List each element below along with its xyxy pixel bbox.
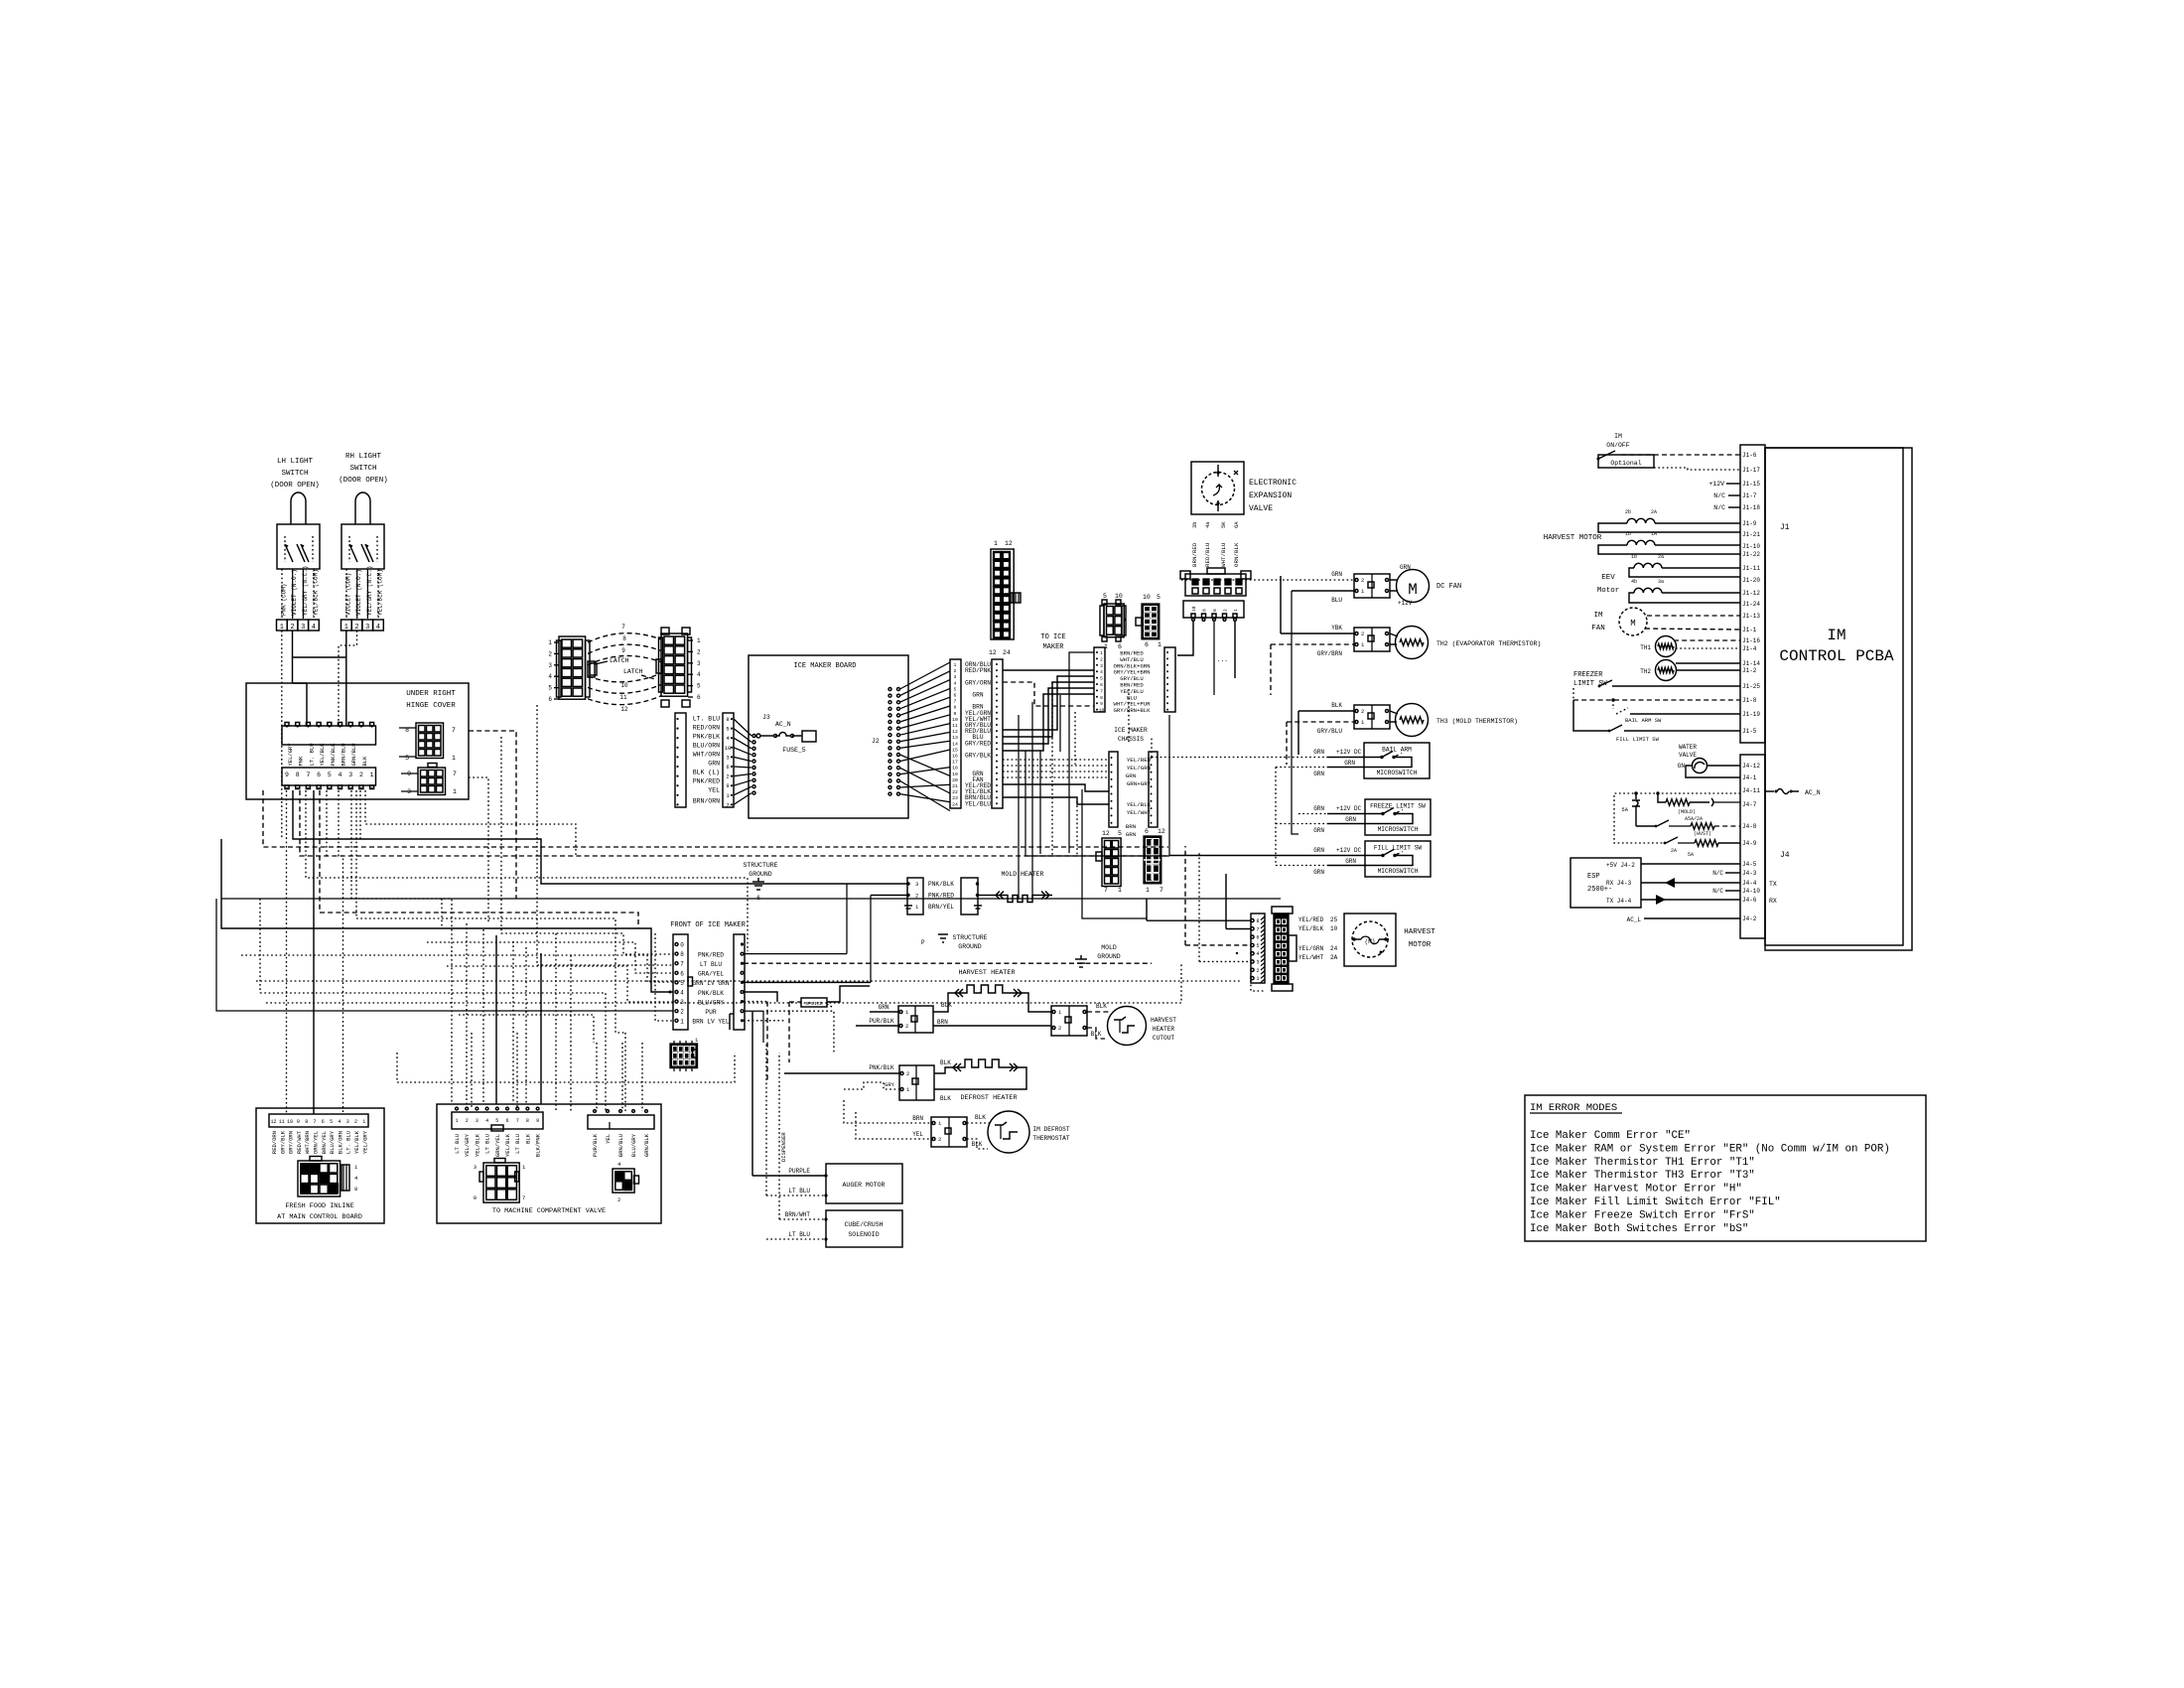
freezer limit switch symbol	[1599, 680, 1612, 686]
wire GRN into CN-HH1	[870, 1011, 898, 1013]
svg-text:2: 2	[1256, 968, 1259, 974]
svg-text:PNK (COM): PNK (COM)	[281, 584, 288, 616]
svg-text:J1-1: J1-1	[1742, 627, 1757, 633]
svg-text:VIOLET (COM): VIOLET (COM)	[345, 573, 352, 616]
svg-text:7: 7	[1160, 887, 1163, 894]
svg-text:BLU/GRY: BLU/GRY	[698, 999, 724, 1006]
splice label box	[801, 998, 827, 1007]
svg-text:GRN: GRN	[1400, 564, 1411, 571]
svg-text:GRN: GRN	[1313, 749, 1324, 756]
svg-text:J2: J2	[872, 738, 880, 745]
svg-text:7: 7	[1256, 926, 1259, 932]
microswitch box FILL LIMIT SW	[1365, 841, 1431, 877]
connector strip CN-A (hinge cover upper)	[282, 726, 376, 745]
svg-text:SPLICE: SPLICE	[805, 1001, 822, 1007]
svg-text:YEL: YEL	[912, 1131, 923, 1138]
svg-text:7: 7	[522, 1195, 525, 1201]
IM defrost thermostat circle	[988, 1111, 1029, 1153]
svg-text:9: 9	[954, 711, 957, 717]
svg-text:PNK/RED: PNK/RED	[698, 951, 724, 958]
svg-text:BRN/RED: BRN/RED	[1191, 542, 1198, 567]
svg-text:BLK: BLK	[1096, 1003, 1107, 1010]
svg-text:J4-4: J4-4	[1742, 880, 1757, 887]
svg-text:GRN: GRN	[972, 692, 983, 699]
svg-text:2: 2	[354, 1119, 357, 1125]
svg-text:FILL LIMIT SW: FILL LIMIT SW	[1374, 845, 1423, 852]
svg-text:M: M	[1408, 581, 1418, 599]
svg-text:Motor: Motor	[1597, 587, 1620, 595]
box: harvest motor	[1344, 914, 1396, 966]
svg-text:FREEZER: FREEZER	[1573, 671, 1603, 679]
board left pin circles	[752, 735, 755, 738]
svg-text:9: 9	[621, 647, 625, 654]
svg-text:2: 2	[290, 624, 294, 632]
svg-text:J1-24: J1-24	[1742, 601, 1760, 608]
svg-text:BLK: BLK	[940, 1095, 951, 1102]
svg-text:7: 7	[621, 624, 625, 631]
svg-text:ELECTRONIC: ELECTRONIC	[1249, 479, 1297, 488]
svg-text:IM ERROR MODES: IM ERROR MODES	[1530, 1102, 1617, 1114]
machine compartment connector strip 2	[588, 1115, 654, 1129]
svg-text:17: 17	[952, 760, 958, 766]
svg-text:11: 11	[619, 694, 627, 701]
connector strip CN-HM1	[1251, 914, 1265, 983]
wire bundle from hinge cover down to fresh food board	[286, 790, 288, 1114]
svg-text:1: 1	[362, 1119, 365, 1125]
svg-text:YEL/GRY (N.C.): YEL/GRY (N.C.)	[302, 566, 309, 616]
svg-text:ICE MAKER BOARD: ICE MAKER BOARD	[793, 662, 856, 670]
svg-text:GRY/ORN: GRY/ORN	[965, 679, 991, 686]
svg-text:YEL/BLK: YEL/BLK	[1298, 925, 1324, 932]
svg-text:19: 19	[952, 772, 958, 777]
wire splice connections	[789, 1001, 801, 1003]
svg-text:BRN/BLU: BRN/BLU	[341, 743, 347, 766]
svg-text:8: 8	[1256, 918, 1259, 924]
svg-text:FRONT OF ICE MAKER: FRONT OF ICE MAKER	[670, 921, 746, 929]
svg-text:8: 8	[622, 635, 626, 642]
svg-text:10: 10	[287, 1119, 293, 1125]
svg-text:GRN: GRN	[1313, 827, 1324, 834]
svg-text:7: 7	[1100, 688, 1103, 694]
connector J-FIM (black 4x3 grid)	[670, 1044, 698, 1068]
svg-text:PNK: PNK	[298, 756, 305, 767]
svg-text:5: 5	[697, 683, 701, 690]
switch S1 (LH light switch)	[291, 492, 306, 524]
svg-text:11: 11	[952, 723, 958, 729]
svg-text:2: 2	[1361, 708, 1364, 715]
svg-text:6: 6	[1100, 682, 1103, 688]
IM fan motor symbol	[1619, 608, 1647, 635]
svg-text:BRN: BRN	[1126, 823, 1137, 830]
svg-text:5: 5	[680, 980, 684, 987]
svg-text:3: 3	[365, 624, 369, 632]
wire GRN dotted to CN-FAN	[1283, 579, 1354, 581]
svg-text:YEL/GRY: YEL/GRY	[361, 1130, 368, 1154]
svg-text:BRN/WHT: BRN/WHT	[785, 1211, 811, 1218]
defrost heater element	[934, 1067, 950, 1073]
svg-text:IM: IM	[1827, 627, 1845, 644]
svg-text:4a: 4a	[1204, 521, 1211, 528]
svg-text:1: 1	[453, 788, 457, 795]
svg-text:9: 9	[726, 782, 729, 789]
svg-text:+12V DC: +12V DC	[1336, 805, 1362, 812]
svg-text:3: 3	[697, 660, 701, 667]
wire PUR/BLK into CN-HH1	[856, 1025, 898, 1027]
connector strip CN-I	[1094, 647, 1105, 712]
svg-text:YEL/BLK: YEL/BLK	[353, 1130, 360, 1154]
DC fan motor	[1397, 570, 1430, 603]
svg-text:YEL/GRN: YEL/GRN	[1127, 765, 1152, 772]
wire BRN/WHT to solenoid	[779, 1218, 826, 1220]
svg-text:J1-14: J1-14	[1742, 660, 1760, 667]
svg-text:Ice Maker RAM or System Error: Ice Maker RAM or System Error "ER" (No C…	[1530, 1143, 1890, 1155]
svg-text:J1-11: J1-11	[1742, 565, 1760, 572]
svg-text:YEL/BLK (COM): YEL/BLK (COM)	[377, 569, 384, 616]
svg-text:SWITCH: SWITCH	[281, 470, 308, 478]
svg-text:0: 0	[680, 942, 684, 949]
svg-text:N/C: N/C	[1712, 870, 1723, 877]
svg-text:GRY: GRY	[885, 1081, 895, 1088]
svg-text:12: 12	[989, 649, 997, 656]
svg-text:FREEZE LIMIT SW: FREEZE LIMIT SW	[1370, 803, 1426, 810]
connector strip CN-H (front of ice maker right)	[734, 934, 745, 1030]
svg-text:GRN: GRN	[1126, 831, 1137, 838]
fuse network dashed frame	[1614, 793, 1740, 843]
svg-text:5K: 5K	[1220, 521, 1227, 528]
svg-text:6: 6	[505, 1118, 508, 1124]
svg-text:LT BLU: LT BLU	[484, 1134, 491, 1154]
connector strip CN-E (24-pin)	[950, 659, 961, 808]
connector CN-MH (mold heater feed)	[907, 878, 923, 914]
svg-text:2: 2	[1361, 631, 1364, 637]
svg-text:TX J4-4: TX J4-4	[1606, 898, 1632, 905]
wire BLK to CN-TH3	[1298, 710, 1354, 712]
svg-text:J4-9: J4-9	[1742, 840, 1757, 847]
svg-text:7: 7	[954, 699, 957, 705]
svg-text:2: 2	[680, 1009, 684, 1016]
svg-text:BLU: BLU	[1331, 597, 1342, 604]
svg-text:6: 6	[548, 696, 552, 703]
svg-text:J4-8: J4-8	[1742, 823, 1757, 830]
wire bundle verticals to machine compartment box	[466, 923, 468, 1104]
svg-text:BRN/YEL: BRN/YEL	[928, 904, 954, 911]
svg-text:2: 2	[548, 650, 552, 657]
svg-text:12: 12	[1005, 540, 1013, 547]
wire bundle verticals x1060-1095 upper	[1076, 801, 1078, 856]
svg-text:3: 3	[474, 1164, 477, 1171]
wire GRY/BRN dashed to CN-TH2	[1271, 643, 1354, 645]
svg-text:GRY/ORN: GRY/ORN	[288, 1131, 295, 1154]
svg-text:Ice Maker Comm Error "CE": Ice Maker Comm Error "CE"	[1530, 1130, 1691, 1142]
svg-text:12: 12	[1158, 828, 1165, 835]
svg-text:J1-20: J1-20	[1742, 577, 1760, 584]
svg-text:1: 1	[1100, 650, 1103, 656]
svg-text:8: 8	[1202, 609, 1208, 612]
svg-text:FRESH FOOD INLINE: FRESH FOOD INLINE	[285, 1202, 353, 1210]
svg-text:+12V: +12V	[1708, 481, 1724, 488]
connector J-C (2x5 white)	[1102, 838, 1121, 887]
svg-text:6: 6	[322, 1119, 325, 1125]
svg-text:BRN/BLU: BRN/BLU	[617, 1134, 624, 1157]
svg-text:5: 5	[954, 686, 957, 692]
svg-text:BLK/ORN: BLK/ORN	[337, 1131, 343, 1154]
svg-text:J1-18: J1-18	[1742, 504, 1760, 511]
svg-text:(DOOR OPEN): (DOOR OPEN)	[270, 482, 320, 490]
svg-text:12: 12	[952, 729, 958, 735]
connector CN-HM2 (harvest motor plug)	[1272, 907, 1293, 914]
wires to fill limit switch	[1169, 855, 1365, 857]
svg-text:4: 4	[680, 990, 684, 997]
wire stubs below hinge cover	[320, 790, 638, 928]
svg-text:YEL/BLK: YEL/BLK	[474, 1133, 480, 1157]
svg-text:Ice Maker Thermistor TH1 Error: Ice Maker Thermistor TH1 Error "T1"	[1530, 1157, 1755, 1169]
svg-text:BLK: BLK	[524, 1133, 531, 1144]
wire hinge pin dotted y884 run	[306, 790, 748, 951]
wire fan board to CN-E 24-pin strip	[900, 662, 951, 689]
ground symbol 2	[938, 933, 948, 935]
svg-text:LT BLU: LT BLU	[454, 1134, 461, 1154]
svg-text:2A: 2A	[1330, 954, 1338, 961]
svg-text:J1-10: J1-10	[1742, 543, 1760, 550]
latch harness crossing wires	[588, 633, 661, 642]
svg-text:AT MAIN CONTROL BOARD: AT MAIN CONTROL BOARD	[277, 1213, 362, 1221]
svg-text:MICROSWITCH: MICROSWITCH	[1378, 868, 1419, 875]
wire from P1 pin2 down and right to P2 column	[293, 631, 346, 657]
svg-text:GN: GN	[1678, 763, 1686, 770]
svg-text:J4: J4	[1780, 851, 1790, 860]
svg-text:AC_N: AC_N	[775, 721, 791, 728]
svg-text:7: 7	[313, 1119, 316, 1125]
svg-text:2: 2	[466, 1118, 469, 1124]
svg-text:HINGE COVER: HINGE COVER	[406, 702, 456, 710]
EEV stepper motor symbol	[1202, 473, 1235, 505]
svg-text:1: 1	[452, 755, 456, 762]
svg-text:1: 1	[344, 624, 348, 632]
svg-text:(DOOR OPEN): (DOOR OPEN)	[339, 477, 388, 485]
svg-text:4b: 4b	[1631, 579, 1637, 585]
svg-text:GRN: GRN	[1313, 847, 1324, 854]
svg-text:MOTOR: MOTOR	[1409, 941, 1432, 949]
svg-text:10: 10	[1143, 594, 1151, 601]
wire bundle CN-F area down to harvest motor region	[1025, 751, 1169, 856]
svg-text:PURPLE: PURPLE	[788, 1168, 810, 1175]
svg-text:4: 4	[1256, 951, 1259, 957]
svg-text:WATER: WATER	[1679, 744, 1697, 751]
svg-text:6A: 6A	[1233, 521, 1240, 528]
ground symbol 3	[1075, 958, 1087, 960]
svg-text:LT BLU: LT BLU	[788, 1188, 810, 1195]
svg-text:2: 2	[1100, 656, 1103, 662]
svg-text:AUGER MOTOR: AUGER MOTOR	[843, 1182, 886, 1189]
svg-text:HEATER: HEATER	[1153, 1026, 1175, 1033]
connector CN-EEV header	[1183, 601, 1244, 618]
svg-text:J4-2: J4-2	[1742, 915, 1757, 922]
svg-text:SOLENOID: SOLENOID	[848, 1231, 879, 1238]
svg-text:LT. BLU: LT. BLU	[308, 743, 315, 766]
svg-text:RED/ORN: RED/ORN	[693, 725, 720, 732]
svg-text:8: 8	[354, 1186, 357, 1193]
svg-text:J1-16: J1-16	[1742, 637, 1760, 644]
svg-text:3b: 3b	[1191, 521, 1198, 528]
wire dotted left pair to front strip	[241, 955, 673, 982]
svg-text:+12V DC: +12V DC	[1336, 847, 1362, 854]
svg-text:J4-3: J4-3	[1742, 870, 1757, 877]
connector strip CN-K	[1109, 752, 1118, 827]
wire fan CN-D to ice maker board pins	[734, 719, 751, 736]
svg-text:RED/PNK: RED/PNK	[965, 667, 991, 674]
svg-text:J4-7: J4-7	[1742, 801, 1757, 808]
svg-text:J1: J1	[1780, 523, 1790, 532]
wire YBK to CN-TH2	[1281, 633, 1354, 634]
svg-text:YEL/BLK (COM): YEL/BLK (COM)	[313, 569, 320, 616]
wire bundle extra verticals into machine compartment	[555, 933, 557, 1111]
svg-text:LT. BLU: LT. BLU	[345, 1131, 352, 1154]
wire long horizontal y905 to ice maker front	[221, 899, 673, 992]
svg-text:2: 2	[915, 893, 918, 900]
svg-text:2A: 2A	[1651, 509, 1657, 515]
svg-text:STRUCTURE: STRUCTURE	[743, 862, 777, 869]
harvest motor winding 2	[1627, 540, 1655, 545]
svg-text:J1-8: J1-8	[1742, 697, 1757, 704]
svg-text:5: 5	[495, 1118, 498, 1124]
svg-text:8: 8	[296, 772, 300, 778]
svg-text:12: 12	[1102, 830, 1110, 837]
svg-text:LT. BLU: LT. BLU	[693, 716, 720, 723]
svg-text:RED/ORN: RED/ORN	[271, 1131, 278, 1154]
svg-text:GRN: GRN	[1313, 771, 1324, 777]
svg-text:2: 2	[726, 774, 729, 780]
svg-text:P: P	[921, 939, 925, 946]
wires CN-F to CN-I	[1003, 669, 1094, 671]
svg-text:J1-21: J1-21	[1742, 531, 1760, 538]
svg-text:1: 1	[680, 1018, 684, 1025]
svg-text:RED/WHT: RED/WHT	[296, 1130, 303, 1154]
svg-text:UNDER RIGHT: UNDER RIGHT	[406, 690, 456, 698]
wire GRY into CN-DH dotted	[844, 1082, 899, 1089]
AC_N squiggle	[1765, 790, 1774, 792]
svg-text:GRN: GRN	[708, 761, 720, 768]
svg-text:GROUND: GROUND	[958, 943, 982, 950]
connector LH-A (2x6 latch harness)	[559, 636, 586, 699]
wire LT BLU to solenoid	[766, 1238, 826, 1240]
svg-text:M: M	[1630, 619, 1635, 629]
svg-text:DC FAN: DC FAN	[1436, 583, 1461, 591]
fresh food connector strip	[269, 1114, 368, 1127]
svg-text:9: 9	[536, 1118, 539, 1124]
svg-text:2: 2	[954, 668, 957, 674]
connector strip CN-B (hinge cover lower)	[282, 768, 376, 785]
svg-text:GRN: GRN	[1331, 571, 1342, 578]
wires to defrost thermostat	[967, 1122, 991, 1124]
svg-text:3: 3	[1256, 960, 1259, 966]
svg-text:THERMOSTAT: THERMOSTAT	[1032, 1135, 1069, 1142]
box: ICE MAKER BOARD	[749, 655, 908, 818]
svg-text:RH LIGHT: RH LIGHT	[345, 453, 382, 461]
svg-text:HARVEST HEATER: HARVEST HEATER	[958, 969, 1015, 977]
svg-text:6: 6	[1145, 641, 1149, 648]
EEV winding 1	[1634, 563, 1662, 568]
svg-text:TH3 (MOLD THERMISTOR): TH3 (MOLD THERMISTOR)	[1436, 718, 1518, 725]
svg-text:LATCH: LATCH	[623, 668, 643, 675]
svg-text:GRN: GRN	[1345, 816, 1356, 823]
box: TO MACHINE COMPARTMENT VALVE	[437, 1104, 661, 1223]
svg-text:7: 7	[453, 771, 457, 777]
svg-text:1: 1	[455, 1118, 458, 1124]
svg-text:2: 2	[938, 1136, 941, 1143]
microswitch box FREEZE LIMIT SW	[1365, 799, 1431, 835]
svg-text:24: 24	[1003, 649, 1011, 656]
svg-text:YEL/GRY: YEL/GRY	[464, 1133, 471, 1157]
svg-text:MICROSWITCH: MICROSWITCH	[1377, 770, 1418, 776]
svg-text:MOLD HEATER: MOLD HEATER	[1002, 871, 1044, 878]
svg-text:1: 1	[1233, 609, 1239, 612]
connector CN-FAN	[1354, 574, 1390, 598]
svg-text:J4-11: J4-11	[1742, 787, 1760, 794]
svg-text:J1-12: J1-12	[1742, 590, 1760, 597]
wires into machine compartment strips	[471, 1033, 473, 1108]
svg-text:GRN: GRN	[1313, 805, 1324, 812]
ground symbol 1	[752, 881, 764, 883]
svg-text:TH2: TH2	[1640, 668, 1651, 675]
svg-text:2b: 2b	[1625, 509, 1631, 515]
svg-text:HARVEST MOTOR: HARVEST MOTOR	[1544, 534, 1602, 542]
svg-text:1: 1	[548, 639, 552, 646]
svg-text:J1-6: J1-6	[1742, 452, 1757, 459]
svg-text:4: 4	[548, 673, 552, 680]
svg-text:LH LIGHT: LH LIGHT	[277, 458, 314, 466]
svg-text:J1-15: J1-15	[1742, 481, 1760, 488]
svg-text:VALVE: VALVE	[1249, 504, 1273, 513]
svg-text:TO ICE: TO ICE	[1040, 633, 1065, 641]
svg-text:4: 4	[338, 1119, 341, 1125]
harvest motor winding 1	[1627, 518, 1655, 523]
svg-text:PUR: PUR	[705, 1009, 716, 1016]
svg-text:VIOLET (N.O.): VIOLET (N.O.)	[291, 569, 298, 616]
svg-text:IM: IM	[1614, 433, 1622, 440]
harvest heater element	[933, 993, 952, 1012]
svg-text:...: ...	[1217, 656, 1228, 663]
svg-text:YEL/BLU: YEL/BLU	[965, 800, 991, 807]
svg-text:LATCH: LATCH	[610, 657, 629, 664]
wires CN-F dotted to CN-K strip	[1003, 759, 1109, 761]
svg-text:BAIL ARM: BAIL ARM	[1382, 747, 1412, 754]
svg-text:21: 21	[952, 783, 958, 789]
connector J-HC2 (3x3 grid)	[418, 768, 446, 795]
svg-text:YEL/BLK: YEL/BLK	[319, 743, 326, 767]
svg-text:2500+-: 2500+-	[1587, 886, 1612, 894]
svg-text:YEL/WHT: YEL/WHT	[1127, 809, 1152, 816]
svg-text:PNK/BLK: PNK/BLK	[928, 881, 954, 888]
svg-text:J4-5: J4-5	[1742, 861, 1757, 868]
svg-text:3: 3	[1100, 663, 1103, 669]
svg-text:DISPENSER: DISPENSER	[780, 1132, 787, 1162]
wire solid vertical x541 from latch region down	[537, 705, 673, 965]
svg-text:ORN/BLK: ORN/BLK	[1233, 542, 1240, 567]
svg-text:ESP: ESP	[1587, 873, 1600, 881]
svg-text:5: 5	[1157, 594, 1160, 601]
svg-text:10: 10	[725, 745, 732, 752]
wire EEV riser to fan	[1292, 591, 1298, 834]
svg-text:A5A/2A: A5A/2A	[1685, 816, 1703, 822]
svg-text:18: 18	[952, 766, 958, 772]
connector strip CN-F (24-pin mate)	[992, 659, 1003, 808]
microswitch box BAIL ARM	[1364, 743, 1430, 778]
svg-text:1: 1	[1256, 976, 1259, 982]
svg-text:6: 6	[756, 895, 760, 902]
svg-text:PNK/RED: PNK/RED	[693, 778, 720, 785]
svg-text:3: 3	[915, 881, 918, 888]
switch S2 (RH light switch)	[355, 492, 370, 524]
